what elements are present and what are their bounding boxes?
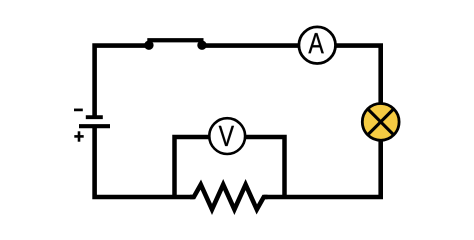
wire: top from switch right dot to top-right corner, down to lamp xyxy=(203,46,381,122)
switch S1 left contact dot xyxy=(144,41,153,50)
wire: voltmeter parallel branch left leg and top xyxy=(175,137,228,197)
wire: top-left from switch to battery top xyxy=(95,46,147,116)
resistor R1 zigzag xyxy=(190,185,268,210)
battery B1 long positive plate xyxy=(79,124,110,128)
lamp L1 cross stroke 1 xyxy=(368,109,394,135)
lamp L1 body circle xyxy=(362,104,399,141)
switch S1 right contact dot xyxy=(197,41,206,50)
voltmeter V1 circle xyxy=(209,118,245,154)
wire: lamp to bottom-right corner to resistor right end xyxy=(264,122,381,197)
ammeter A1 circle xyxy=(299,27,336,64)
ammeter A1 letter A xyxy=(308,33,323,53)
wire: voltmeter parallel branch top and right leg xyxy=(227,137,285,197)
wire: resistor left end to bottom-left corner up to battery bottom xyxy=(95,126,194,197)
battery positive label + xyxy=(74,131,83,141)
battery negative label - xyxy=(74,109,83,112)
voltmeter V1 letter V xyxy=(219,126,234,146)
lamp L1 cross stroke 2 xyxy=(368,109,394,135)
switch S1 closed blade bar xyxy=(147,38,203,42)
battery B1 short negative plate xyxy=(86,115,103,119)
